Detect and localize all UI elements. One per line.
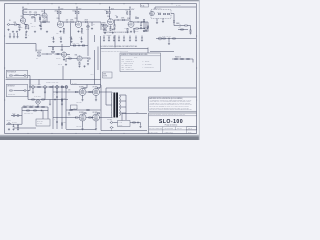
wire input to grid [11,24,14,26]
svg-text:10K 1M: 10K 1M [157,11,161,13]
wire plate supply V1A [22,8,24,11]
svg-text:1M 470K: 1M 470K [12,122,17,124]
wire box drop a [156,18,158,21]
resistor row r1 [38,86,41,87]
legend divider [120,55,161,57]
svg-text:10uF: 10uF [59,37,62,39]
svg-text:B+ 490V: B+ 490V [72,82,77,84]
wire nfb run [122,113,147,115]
wire screen V9 [96,112,98,114]
wire secondary tap 2 [120,100,127,102]
resistor row r2 [50,86,53,87]
capacitor zobel [137,122,140,124]
relay LDR1 [32,86,35,89]
ground hang 3 [70,41,72,43]
box note PI [103,72,113,78]
svg-text:4-8-16: 4-8-16 [119,122,123,124]
wire filter cap top 6 [129,36,131,38]
ground mid c [16,36,18,38]
wire screen V7 [96,87,98,89]
resistor ret1 [73,45,76,46]
svg-text:OD LED CLN: OD LED CLN [8,94,15,96]
resistor tone3 [110,28,111,30]
wire mstr2 [138,28,144,30]
wire row drop b [38,80,40,86]
wire b+ top right [155,6,196,8]
title divider 3 [149,129,197,131]
svg-text:310V: 310V [24,9,27,11]
resistor d3 [187,58,190,59]
wire tone link [101,24,104,26]
svg-text:470K: 470K [121,18,124,20]
B+ arrow V1A [22,7,23,8]
wire c4b drop [140,22,142,25]
svg-text:Preamp & Overdrive: Preamp & Overdrive [165,125,178,127]
output transformer T2 secondary winding [119,95,122,116]
svg-text:10K: 10K [68,56,70,58]
wire supply V3B [129,8,131,12]
wire master down [147,22,149,31]
power tube V9 [93,114,100,121]
svg-text:2n2: 2n2 [29,11,31,13]
title divider 2 [149,126,197,128]
capacitor hang 3 [71,38,73,41]
input jack J1 [7,24,11,26]
ground filter 7 [135,39,137,41]
svg-text:SEND: SEND [176,23,180,25]
resistor Rk V1A [25,25,26,27]
wire mixer drop [91,22,93,26]
wire grid to V1A [17,24,21,26]
wire filter cap top 4 [118,36,120,38]
wire bias row2 [22,110,48,112]
capacitor tstack [116,16,118,19]
wire C1 to R4 [31,14,34,16]
wire secondary tap 1 [120,94,127,96]
wire chain turn [174,25,179,27]
wire hang top 2 [60,37,62,39]
pot send level [52,50,55,52]
svg-text:SLO-100: SLO-100 [159,119,183,125]
capacitor C2 [66,21,69,23]
wire CT drop [105,88,107,105]
resistor R21 [190,30,191,32]
svg-text:220K: 220K [63,98,66,100]
pot master volume [145,27,148,29]
wire fx out [67,54,71,56]
svg-text:22uF/450V 22uF/450V 100K 10: 22uF/450V 22uF/450V 100K 100K 30K 5W PIL… [102,51,129,53]
resistor d1 [175,58,178,59]
wire mid stub b [13,33,15,36]
ground filter 8 [141,39,143,41]
resistor R11 plate V2B b [78,11,79,14]
resistor chain x144 [143,19,144,21]
capacitor filter 3 [113,36,115,39]
svg-text:V1B: V1B [41,11,44,13]
wire fx drop [61,44,63,51]
capacitor ret4 [87,60,89,63]
wire mid-left bus [48,46,70,48]
wire diode row [172,58,193,60]
resistor Rk2 V3B [127,28,128,30]
svg-text:470K: 470K [34,12,37,14]
resistor pi in [32,99,35,100]
svg-text:D3 D4: D3 D4 [12,112,16,114]
ground hang 2 [60,41,62,43]
wire fx right [42,53,47,55]
resistor R10 plate V2B [75,11,76,14]
triode V2A [57,21,63,27]
resistor fx2 [38,55,41,56]
ground box a [156,22,158,24]
wire top bus [92,21,101,23]
wire ret to tube [82,57,88,59]
svg-text:1.5K PIN5: 1.5K PIN5 [76,101,82,103]
capacitor tone4 [112,28,114,31]
resistor sb1 [163,38,166,39]
wire V3B out [133,21,138,23]
resistor R16 [142,21,145,22]
wire fsw A [14,75,25,77]
wire row stub1 [32,88,34,91]
ground ret4 [87,63,89,65]
svg-text:NORM: NORM [15,73,19,75]
wire spk1 [114,122,118,124]
wire bus bot link [53,117,77,119]
wire plate V1A [22,13,24,17]
ground V3A k [113,28,115,30]
wire bias drop [47,107,49,119]
wire bus vertical 3 [61,85,63,129]
wire secondary tap 3 [120,106,127,108]
wire fsw join [29,76,31,91]
resistor row r3 [61,86,64,87]
svg-text:68K: 68K [14,22,17,24]
resistor grid V9 [89,117,92,118]
triode V1A [20,18,25,23]
svg-text:MID: MID [103,29,105,31]
output transformer T2 core bar left [113,93,115,118]
ground psu0 [8,128,10,130]
wire grid V6 [78,91,80,93]
wire plate V3A [109,14,111,19]
scan shadow bottom fade [0,135,200,136]
wire psu bus [6,123,22,125]
wire mid link [66,109,101,111]
wire bias row [22,106,48,108]
wire screen V8 [83,112,85,114]
wire mid stub a [9,33,11,36]
resistor bus r2 [61,123,62,125]
svg-text:1.5K .68: 1.5K .68 [31,26,36,28]
svg-text:33K .68: 33K .68 [58,64,62,66]
wire pi drop a [49,100,51,104]
ground row 1 [32,91,34,93]
wire zobel drop [140,123,142,126]
resistor ret3 [69,58,72,59]
capacitor filter 5 [123,36,125,39]
wire rail drop left [100,36,102,85]
svg-text:39K: 39K [63,32,65,34]
wire v3a kk [114,20,116,25]
wire feedback drop [35,44,37,52]
wire R9 to V2B [73,21,77,23]
wire relay feed [6,79,101,81]
ground top row 3 [25,31,27,33]
ground filter 5 [123,39,125,41]
resistor R15b plate V3B [127,12,128,15]
ground zobel [139,126,141,128]
title rev box [187,127,197,130]
wire C3 on [119,19,122,21]
svg-text:475K: 475K [136,30,139,32]
ground c1b [40,28,42,30]
svg-text:10K: 10K [36,58,38,60]
wire B+ rail [23,9,130,11]
resistor R22 [181,29,184,30]
svg-text:V2B: V2B [75,18,78,20]
resistor fx1 [38,52,41,53]
wire filter cap top 7 [135,36,137,38]
triode V5B phase inverter [36,100,40,104]
ground master [145,30,147,32]
svg-text:.022: .022 [66,20,69,22]
wire box out [171,13,174,15]
svg-text:220K: 220K [55,11,58,13]
triode V4A in box [150,11,155,16]
wire plates top [86,91,93,93]
resistor R16b [136,17,139,18]
sheet grid label box [141,4,149,7]
ground top row 1 [12,31,14,33]
ground return [78,65,80,67]
svg-text:100K .1 47K: 100K .1 47K [73,43,80,45]
svg-text:Z = 12V ZENER: Z = 12V ZENER [143,64,152,66]
svg-text:NOTE: NOTE [103,76,107,78]
wire row stub3 [56,88,58,91]
wire mid stub d [25,32,27,34]
wire filter cap top 3 [113,36,115,38]
capacitor couple mid [68,112,70,115]
power tube V8 grid detail [81,116,85,119]
svg-text:pF nF: pF nF [134,57,138,59]
ground pi b [61,103,63,105]
resistor R18 in box [163,13,166,14]
wire box drop b [162,18,164,20]
wire chain x144 [143,22,145,27]
wire r4c drop [34,17,36,22]
wire C2 to R9 [68,21,71,23]
wire fx 2 [48,53,52,55]
svg-text:1.5K PIN5: 1.5K PIN5 [76,125,82,127]
scan shadow top edge [0,0,200,1]
resistor ret k [79,62,80,64]
capacitor hang 2 [60,38,62,41]
capacitor chain x144 [143,27,145,30]
triode V3A [108,19,114,25]
svg-text:V6 5881: V6 5881 [79,86,84,88]
resistor fx send [52,47,53,49]
svg-text:V7 5881: V7 5881 [93,86,98,88]
svg-text:B-100: B-100 [188,131,192,133]
resistor R4c [32,17,35,18]
resistor screen V8 [84,113,86,114]
wire to V2 area [40,21,46,23]
wire filter cap top 1 [103,36,105,38]
wire primary bottom [111,117,113,118]
box footswitch B [6,85,28,97]
wire bus link [70,80,72,85]
wire plates join right [99,91,112,93]
wire legend feed [147,48,149,54]
svg-text:SEE: SEE [103,73,106,75]
ground top row 4 [34,31,36,33]
wire v3a k [110,24,112,27]
resistor R13b plate V3A [106,11,107,14]
jack slave out [7,123,11,125]
wire V1A plate out [23,14,29,16]
svg-text:L = HENRY CHOKE: L = HENRY CHOKE [122,63,133,65]
resistor R9 [71,21,74,22]
svg-text:470K: 470K [85,20,88,22]
wire presence [66,58,77,60]
resistor R3 plate V1A [22,11,23,14]
wire cathode top 2 [95,95,97,99]
wire ret link [70,45,88,47]
capacitor filter 7 [135,36,137,39]
wire supply V2B [76,8,78,11]
ground V2A cathode [63,31,65,33]
svg-text:TREB: TREB [102,23,106,25]
ground filter 1 [103,39,105,41]
ground filter 6 [129,39,131,41]
svg-text:1uF: 1uF [30,23,32,25]
ground pi a [49,103,51,105]
wire hang top 3 [71,37,73,39]
wire grid V9 [91,117,93,119]
wire screen V6 [83,87,85,89]
ground hang 1 [52,41,54,43]
relay LDR4 [65,86,68,89]
wire chain 4 [187,25,190,27]
svg-text:ST-BY 4.7K .01: ST-BY 4.7K .01 [162,36,171,38]
wire b+ drop [154,7,156,10]
ground tone [104,32,106,34]
wire c1b [40,22,42,26]
wire pi row [28,99,68,101]
B+ arrow V2B [76,7,77,8]
svg-text:220K 220K 15K 56K: 220K 220K 15K 56K [23,105,34,107]
wire secondary tap 4 [120,112,127,114]
resistor master leg [147,26,148,28]
wire bus vertical 1 [52,85,54,129]
wire mid stub c [17,33,19,36]
wire chain 5 [178,29,188,31]
svg-text:470: 470 [68,90,70,92]
resistor zobel [133,122,136,123]
ground mid d [25,36,27,38]
power tube V6 [79,89,86,96]
resistor mstr2 [136,28,139,29]
wire ret down [87,46,89,57]
resistor Rk V2B [81,28,82,30]
capacitor C4 [137,21,140,23]
box bias adj [36,119,50,126]
ground jack sleeve [7,29,9,31]
svg-text:D = 1N4007: D = 1N4007 [143,61,150,63]
scan shadow top fade [0,0,200,3]
wire right mid long [150,51,174,53]
wire plate V2B [76,14,78,21]
svg-text:100K 1K: 100K 1K [56,58,61,60]
capacitor sb [168,38,171,40]
resistor R5 grid leak [39,17,40,19]
wire jack gnd [111,130,113,131]
wire tap out [125,113,127,120]
svg-text:1.5K: 1.5K [20,27,23,29]
wire filter cap top 2 [108,36,110,38]
capacitor tone1 [102,25,104,28]
ground tone4 [112,32,114,34]
resistor psu zener [17,125,18,127]
triode V5A return [77,56,82,61]
wire plates join right bot [99,117,112,119]
wire vertical link B [87,23,89,46]
jack fsw B [23,90,27,92]
resistor R4 [34,14,37,15]
wire B+ to CT [106,87,196,89]
capacitor C4b [140,24,142,27]
box title block [149,113,197,133]
wire V2B out [80,21,85,23]
box footswitch A [6,71,28,79]
resistor V3A k [114,25,115,27]
wire to mixer [88,21,92,23]
wire sb bus [156,38,178,40]
triode V1B [42,13,47,18]
svg-text:250V: 250V [60,9,63,11]
wire chain 2 [173,23,175,26]
resistor grid V6 [75,91,78,92]
sheet background [0,0,200,140]
capacitor filter 6 [129,36,131,39]
ground filter 3 [113,39,115,41]
wire plates bot [86,117,93,119]
relay LDR2 [44,86,47,89]
capacitor pi [54,99,57,101]
capacitor mid d [25,33,27,36]
ground fx tube [63,59,65,61]
wire R4 to grid bus [37,14,40,16]
wire fx tail drop [62,66,64,80]
svg-text:F 41: F 41 [141,5,144,7]
svg-text:RLY1 RLY2 RLY3: RLY1 RLY2 RLY3 [31,83,41,85]
capacitor psu1 [13,125,15,128]
resistor screen mid2 [87,109,90,110]
ground V3B [130,31,132,33]
svg-text:410V: 410V [111,9,114,11]
resistor bias3 [36,106,39,107]
ground sb [168,43,170,45]
resistor screen V9 [97,113,99,114]
svg-text:SEND LVL: SEND LVL [50,45,56,47]
resistor R12 [85,21,88,22]
triode V3B [128,21,134,27]
capacitor ret [78,45,81,47]
svg-text:1.8K: 1.8K [81,32,84,34]
svg-text:1K: 1K [79,37,81,39]
box impedance selector [118,121,131,127]
